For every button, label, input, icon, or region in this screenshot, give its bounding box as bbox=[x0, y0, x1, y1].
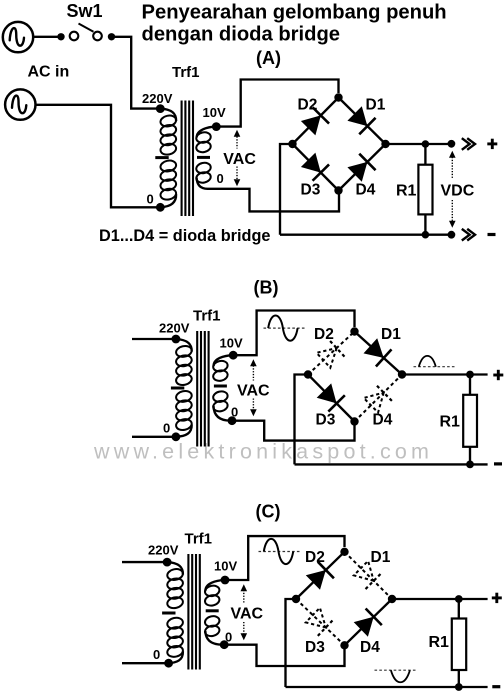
half-wave icon (B) bbox=[414, 366, 457, 368]
svg-text:Trf1: Trf1 bbox=[172, 64, 200, 81]
node 10V dot (B) bbox=[229, 351, 238, 360]
svg-text:0: 0 bbox=[217, 171, 224, 186]
output chevrons minus (A) bbox=[462, 229, 470, 241]
svg-text:220V: 220V bbox=[159, 321, 190, 336]
transformer Trf1-A primary winding bbox=[160, 109, 176, 121]
wire 10V to bridge top (A) bbox=[216, 80, 338, 127]
label - (A) bbox=[488, 233, 496, 236]
diode D1 (A) bbox=[347, 106, 367, 126]
bridge edge left-top dashed (B) bbox=[308, 332, 355, 375]
wire 0 secondary to bridge bottom (C) bbox=[224, 645, 344, 666]
svg-text:VAC: VAC bbox=[231, 606, 264, 623]
wire 10V to bridge top (C) bbox=[225, 536, 345, 580]
svg-text:Sw1: Sw1 bbox=[67, 1, 103, 21]
plus rail (A) bbox=[386, 143, 452, 145]
svg-text:Trf1: Trf1 bbox=[185, 531, 213, 548]
junction dot R1 bottom (B) bbox=[466, 461, 474, 469]
node 220V dot (C) bbox=[163, 558, 172, 567]
node bottom (A) bbox=[334, 186, 342, 194]
svg-text:0: 0 bbox=[163, 421, 170, 436]
label + (A) bbox=[487, 142, 497, 145]
terminal dot plus (A) bbox=[448, 140, 456, 148]
svg-text:220V: 220V bbox=[148, 543, 179, 558]
svg-text:D1: D1 bbox=[371, 549, 391, 566]
svg-text:220V: 220V bbox=[142, 91, 173, 106]
terminal dot minus (A) bbox=[448, 231, 456, 239]
node 220V dot (A) bbox=[156, 104, 165, 113]
svg-text:dengan dioda bridge: dengan dioda bridge bbox=[142, 24, 341, 46]
bridge edge top-right dashed (C) bbox=[345, 552, 393, 599]
label + (B) bbox=[493, 374, 503, 377]
negative half-wave icon (C) bbox=[375, 669, 417, 671]
node 0 secondary dot (C) bbox=[220, 640, 229, 649]
diode D1 (B) bbox=[364, 338, 384, 358]
node right (A) bbox=[381, 140, 389, 148]
plus rail (B) bbox=[402, 373, 488, 375]
switch Sw1 pole contact bbox=[70, 32, 79, 41]
svg-text:10V: 10V bbox=[220, 336, 243, 351]
bridge edge left-bottom dashed (C) bbox=[296, 599, 345, 645]
node 0 dot (A) bbox=[156, 203, 165, 212]
wire 0 secondary to bridge bottom (A) bbox=[208, 189, 340, 212]
resistor R1 (A) bbox=[424, 144, 426, 165]
minus rail (C) bbox=[286, 686, 488, 688]
secondary center-tap mark (A) bbox=[197, 156, 210, 159]
wire V1 to Sw1 bbox=[33, 36, 58, 38]
svg-text:D4: D4 bbox=[373, 412, 393, 429]
bridge edge left-bottom (B) bbox=[308, 375, 355, 422]
primary center-tap mark (C) bbox=[162, 612, 175, 615]
primary center-tap mark (A) bbox=[155, 156, 168, 159]
diode D2 (C) bbox=[306, 570, 326, 590]
AC source V1 bbox=[3, 22, 33, 52]
wire bridge left node down to minus rail (A) bbox=[280, 144, 293, 235]
svg-text:Trf1: Trf1 bbox=[193, 308, 221, 325]
bridge edge bottom-right (A) bbox=[339, 144, 386, 191]
svg-text:VDC: VDC bbox=[441, 182, 475, 199]
diode D3 (B) bbox=[317, 383, 337, 403]
resistor R1 (C) bbox=[458, 599, 460, 619]
svg-text:R1: R1 bbox=[429, 634, 450, 651]
svg-text:D4: D4 bbox=[356, 182, 376, 199]
plus rail (C) bbox=[392, 598, 488, 600]
bridge edge left-top (C) bbox=[296, 552, 345, 599]
measure arrow VAC (C) bbox=[243, 590, 245, 604]
sine wave icon (C) bbox=[259, 551, 302, 553]
bridge edge top-right (B) bbox=[355, 332, 403, 375]
diode D4 (A) bbox=[347, 162, 367, 182]
svg-text:VAC: VAC bbox=[237, 382, 270, 399]
svg-text:D2: D2 bbox=[314, 326, 334, 343]
node left (A) bbox=[288, 140, 296, 148]
switch Sw1 lever bbox=[79, 24, 94, 32]
svg-text:(A): (A) bbox=[256, 48, 281, 68]
diode D4 (C) bbox=[354, 617, 374, 637]
sine wave icon (B) bbox=[264, 327, 307, 329]
node top (A) bbox=[334, 93, 342, 101]
secondary center-tap mark (C) bbox=[206, 609, 219, 612]
wire stub 220V (C) bbox=[122, 561, 164, 563]
junction dot R1 top (A) bbox=[422, 140, 430, 148]
secondary center-tap mark (B) bbox=[214, 385, 227, 388]
node bottom (B) bbox=[350, 417, 358, 425]
node left (B) bbox=[304, 370, 312, 378]
diode D2 (A) bbox=[301, 115, 321, 135]
transformer Trf1-A secondary winding bbox=[197, 127, 217, 138]
wire bridge left node down to minus rail (C) bbox=[286, 599, 297, 687]
transformer Trf1-B secondary winding bbox=[214, 355, 234, 366]
svg-text:(C): (C) bbox=[256, 502, 281, 522]
minus rail (A) bbox=[280, 234, 452, 236]
AC source V2 bbox=[5, 89, 35, 119]
node junction dot at Sw1 input bbox=[57, 33, 64, 40]
node junction dot at Sw1 output bbox=[108, 33, 115, 40]
junction dot R1 bottom (C) bbox=[455, 683, 463, 691]
bridge edge bottom-right dashed (B) bbox=[355, 375, 403, 422]
svg-text:0: 0 bbox=[147, 192, 154, 207]
svg-text:D1...D4 = dioda bridge: D1...D4 = dioda bridge bbox=[99, 227, 270, 245]
wire bridge left node down to minus rail (B) bbox=[295, 375, 309, 465]
node top (B) bbox=[350, 327, 358, 335]
svg-text:R1: R1 bbox=[440, 413, 461, 430]
node 10V dot (C) bbox=[221, 576, 230, 585]
transformer Trf1-C primary winding bbox=[167, 562, 183, 574]
diode D2 dashed (B) bbox=[317, 348, 337, 368]
svg-text:D2: D2 bbox=[305, 549, 325, 566]
transformer Trf1-B core bbox=[196, 331, 198, 447]
wire 0 secondary to bridge bottom (B) bbox=[232, 421, 355, 441]
svg-text:(B): (B) bbox=[254, 278, 279, 298]
svg-text:D1: D1 bbox=[381, 326, 401, 343]
measure arrow VDC (A) bbox=[451, 157, 453, 178]
node 0 dot (B) bbox=[172, 432, 181, 441]
label - (C) bbox=[492, 685, 500, 688]
minus rail (B) bbox=[295, 463, 488, 465]
svg-text:www.elektronikaspot.com: www.elektronikaspot.com bbox=[93, 440, 433, 464]
wire V2 to transformer 0 bbox=[36, 105, 157, 208]
svg-text:D3: D3 bbox=[305, 639, 325, 656]
node right (C) bbox=[388, 595, 396, 603]
primary center-tap mark (B) bbox=[171, 387, 184, 390]
node 0 dot (C) bbox=[164, 659, 173, 668]
node 10V dot (A) bbox=[212, 122, 221, 131]
measure arrow VAC (B) bbox=[252, 366, 254, 381]
bridge edge left-bottom (A) bbox=[293, 144, 339, 191]
svg-text:R1: R1 bbox=[396, 182, 417, 199]
transformer Trf1-A core bbox=[181, 101, 183, 217]
transformer Trf1-C secondary winding bbox=[205, 580, 225, 591]
svg-text:10V: 10V bbox=[214, 558, 237, 573]
node 0 secondary dot (B) bbox=[228, 416, 237, 425]
svg-text:10V: 10V bbox=[203, 105, 226, 120]
svg-text:D3: D3 bbox=[301, 182, 321, 199]
transformer Trf1-C core bbox=[187, 554, 189, 670]
diode D3 (A) bbox=[301, 153, 321, 173]
wire stub 0 (B) bbox=[132, 436, 174, 438]
svg-text:0: 0 bbox=[153, 647, 160, 662]
transformer Trf1-B primary winding bbox=[176, 339, 192, 351]
node left (C) bbox=[292, 595, 300, 603]
junction dot R1 bottom (A) bbox=[422, 231, 430, 239]
svg-text:D3: D3 bbox=[316, 412, 336, 429]
bridge edge left-top (A) bbox=[293, 98, 339, 145]
wire Sw1 to transformer 220V bbox=[112, 37, 158, 109]
node bottom (C) bbox=[340, 641, 348, 649]
junction dot R1 top (C) bbox=[455, 595, 463, 603]
svg-text:D4: D4 bbox=[360, 639, 380, 656]
resistor R1 (B) bbox=[469, 375, 471, 395]
switch Sw1 throw contact bbox=[93, 32, 102, 41]
measure arrow VAC (A) bbox=[236, 137, 238, 149]
diode D1 dashed (C) bbox=[354, 561, 374, 581]
svg-text:Penyearahan gelombang penuh: Penyearahan gelombang penuh bbox=[142, 2, 447, 24]
wire stub 0 (C) bbox=[122, 662, 165, 664]
svg-text:D2: D2 bbox=[298, 96, 318, 113]
svg-text:AC in: AC in bbox=[28, 64, 70, 81]
svg-text:D1: D1 bbox=[366, 96, 386, 113]
node 220V dot (B) bbox=[172, 335, 181, 344]
node top (C) bbox=[340, 548, 348, 556]
svg-text:VAC: VAC bbox=[223, 151, 256, 168]
wire stub 220V (B) bbox=[132, 338, 173, 340]
label - (B) bbox=[494, 462, 502, 465]
junction dot R1 top (B) bbox=[466, 371, 474, 379]
node right (B) bbox=[398, 370, 406, 378]
bridge edge bottom-right (C) bbox=[345, 599, 393, 645]
diode D3 dashed (C) bbox=[306, 608, 326, 628]
label + (C) bbox=[492, 596, 502, 599]
wire 10V to bridge top (B) bbox=[233, 311, 354, 356]
bridge edge top-right (A) bbox=[339, 98, 386, 145]
diode D4 dashed (B) bbox=[364, 393, 384, 413]
output chevrons plus (A) bbox=[462, 138, 470, 150]
